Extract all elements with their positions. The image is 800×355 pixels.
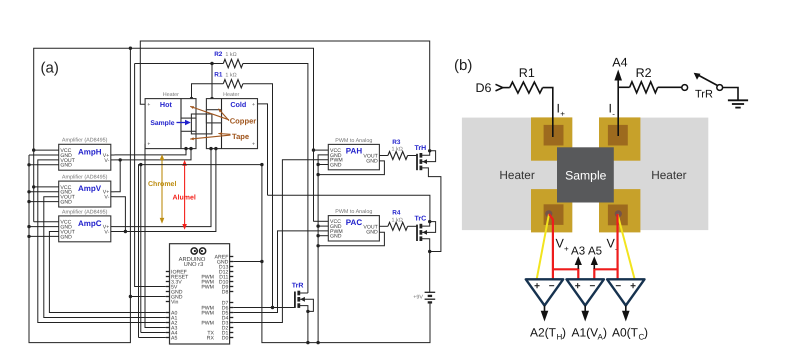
- junction GND bus: [27, 200, 30, 203]
- pin stub V+ AmpC: [111, 226, 115, 228]
- svg-text:−: −: [549, 281, 555, 292]
- pin stub GND: [230, 261, 234, 263]
- resistor R1 (b): [510, 82, 543, 93]
- pin stub D12: [230, 271, 234, 273]
- junction hot heater top pin: [190, 97, 193, 100]
- svg-text:Amplifier (AD8495): Amplifier (AD8495): [62, 209, 108, 215]
- wire cold thermocouple alumel to AmpC V-: [115, 149, 216, 232]
- op-amp U3 (A1): [567, 279, 604, 321]
- heater Hot body: [145, 99, 196, 149]
- wire cold heater right pin down: [258, 104, 268, 195]
- svg-text:Amplifier (AD8495): Amplifier (AD8495): [62, 175, 108, 181]
- node V- contact dot: [615, 210, 622, 217]
- svg-text:A5: A5: [588, 246, 602, 258]
- wire arduino D6 to TrR gate: [233, 307, 295, 309]
- pin stub D5: [230, 312, 234, 314]
- amplifier AmpH (AD8495): [59, 144, 111, 170]
- pin stub V- AmpV: [111, 196, 115, 198]
- pin mark hot heater left bottom: [148, 143, 150, 145]
- junction cold bottom column: [260, 163, 263, 166]
- svg-text:GND: GND: [60, 200, 72, 206]
- svg-text:Heater: Heater: [163, 92, 179, 98]
- arrow A3 sense: [577, 264, 579, 269]
- svg-text:A5: A5: [171, 335, 177, 341]
- pin stub D10: [230, 281, 234, 283]
- svg-text:PWM: PWM: [201, 310, 214, 316]
- junction AmpV V- / AmpC V-: [124, 230, 127, 233]
- wire TrH source: [422, 168, 441, 252]
- pin stub A4: [166, 332, 170, 334]
- wire R2 rail to Arduino 5V pin: [135, 64, 166, 287]
- svg-text:AmpV: AmpV: [78, 184, 102, 193]
- svg-text:Amplifier (AD8495): Amplifier (AD8495): [62, 138, 108, 144]
- svg-text:+: +: [534, 281, 540, 292]
- junction TrC drain node: [428, 220, 431, 223]
- wire to Arduino A5: [139, 337, 166, 339]
- wire to Arduino A4: [141, 332, 166, 334]
- pin stub D9: [230, 286, 234, 288]
- svg-text:Sample: Sample: [150, 120, 174, 127]
- junction cold heater top pin: [210, 97, 213, 100]
- wire to Arduino GND pin: [130, 296, 165, 298]
- wire cold heater strip divider: [221, 99, 223, 149]
- junction cold heater bottom pin 2: [214, 147, 217, 150]
- pad V- bottom-right: [599, 189, 640, 232]
- svg-text:+: +: [575, 281, 581, 292]
- pin stub 3.3V: [166, 281, 170, 283]
- heater Cold body: [206, 99, 257, 149]
- junction PWM GND bus: [316, 244, 319, 247]
- wire hot-heater top rail to TrH drain: [140, 41, 429, 151]
- svg-text:Heater: Heater: [499, 168, 534, 182]
- wire arduino GND to ground spine: [233, 261, 262, 263]
- pin stub GND: [166, 291, 170, 293]
- junction VCC rail / trunk: [129, 47, 132, 50]
- svg-text:Heater: Heater: [223, 92, 239, 98]
- pin stub GND: [166, 296, 170, 298]
- arrow tape to cold strip lower: [218, 133, 230, 136]
- wire AmpV GND2 to GND bus: [29, 201, 59, 203]
- wire PAC VOUT to R4: [379, 225, 388, 227]
- svg-text:UNO r3: UNO r3: [184, 261, 204, 268]
- wire cold thermocouple chromel to AmpC V+: [115, 149, 212, 227]
- wire AmpC GND2 to GND bus: [29, 235, 59, 237]
- wire TrC drain: [422, 222, 430, 227]
- pin stub A5: [166, 337, 170, 339]
- wire PWM GND bus: [318, 155, 328, 343]
- svg-text:1 kΩ: 1 kΩ: [225, 73, 236, 79]
- transistor TrR: [295, 291, 305, 308]
- copper contact bottom-right: [608, 205, 628, 226]
- pin mark cold heater right top: [252, 103, 254, 105]
- pwm-to-analog block PAC: [328, 216, 379, 241]
- wire red V+ bus: [549, 214, 553, 279]
- switch TrR contact 1: [682, 85, 688, 91]
- junction TrH drain node: [428, 149, 431, 152]
- wire AmpH VCC to VCC bus: [34, 149, 59, 151]
- junction PWM GND bus: [316, 163, 319, 166]
- junction AmpV VCC: [32, 185, 35, 188]
- wire VCC rail: [34, 48, 314, 222]
- junction PWM GND bus: [316, 173, 319, 176]
- pin stub D2: [230, 327, 234, 329]
- arrow tape to hot strip lower: [190, 135, 230, 139]
- svg-text:A4: A4: [612, 56, 627, 70]
- wire R1 right to D6 net: [243, 84, 273, 308]
- wire switch to ground: [723, 88, 738, 101]
- wire R2 rail right to TrR drain: [243, 64, 308, 294]
- svg-text:+: +: [560, 110, 565, 119]
- heater band (b) right: [599, 118, 708, 231]
- junction PWM GND bus: [316, 224, 319, 227]
- junction GND bus: [27, 163, 30, 166]
- resistor R4: [388, 222, 408, 230]
- connector chevron D6: [496, 84, 503, 91]
- svg-text:D8: D8: [222, 289, 229, 295]
- wire hot thermocouple alumel to AmpH V-: [115, 149, 192, 160]
- pin mark hot heater left top: [148, 103, 150, 105]
- wire TrC body loop: [422, 222, 436, 233]
- wire R1 left to hot heater pin: [192, 84, 224, 99]
- wire TrC drain rail: [268, 195, 430, 221]
- arrow Chromel double-headed: [161, 158, 163, 220]
- pin stub V- AmpC: [111, 231, 115, 233]
- pin stub D7: [230, 302, 234, 304]
- pin stub A1: [166, 317, 170, 319]
- wire AmpC VCC to VCC bus: [34, 221, 59, 223]
- resistor R2: [223, 59, 243, 67]
- svg-text:GND: GND: [366, 158, 378, 164]
- heater band (b) left: [462, 118, 572, 231]
- pin stub V+ AmpV: [111, 191, 115, 193]
- arrow copper to cold strip upper: [218, 109, 229, 121]
- resistor R2 (b): [630, 82, 658, 93]
- junction A4 column: [139, 163, 142, 166]
- wire yellow V- to opamp A0: [618, 214, 635, 279]
- svg-text:A3: A3: [571, 246, 585, 258]
- wire TrH drain: [422, 151, 430, 156]
- svg-text:Copper: Copper: [230, 116, 257, 125]
- svg-text:): ): [603, 326, 607, 340]
- junction PWM GND bus to bottom bus: [316, 341, 319, 344]
- svg-text:GND: GND: [366, 230, 378, 236]
- wire A4 column: [140, 165, 142, 333]
- wire R2 rail left: [135, 63, 224, 65]
- junction GND bus: [27, 235, 30, 238]
- svg-text:Cold: Cold: [230, 100, 246, 109]
- wire R1 to I+ pad: [543, 88, 553, 137]
- svg-text:V-: V-: [104, 195, 109, 201]
- svg-text:R1: R1: [214, 72, 223, 79]
- junction PWM GND bus: [316, 234, 319, 237]
- svg-text:RX: RX: [207, 335, 215, 341]
- pin stub D8: [230, 291, 234, 293]
- wire ground spine bottom bus to battery: [262, 165, 430, 343]
- pin stub V- AmpH: [111, 159, 115, 161]
- wire AmpH GND2 to GND bus: [29, 164, 59, 166]
- pin stub Vin: [166, 301, 170, 303]
- wire PAH PWM to arduino D3: [233, 160, 328, 323]
- junction Arduino GND tap: [129, 295, 132, 298]
- copper contact top-right: [608, 125, 628, 146]
- svg-text:Chromel: Chromel: [148, 180, 176, 188]
- pin stub A3: [166, 327, 170, 329]
- wire yellow V+ to opamp A2: [537, 214, 549, 279]
- wire TrR body loop: [300, 299, 314, 311]
- svg-text:D0: D0: [222, 335, 229, 341]
- junction hot heater bottom pin 2: [189, 147, 192, 150]
- wire PAC PWM to arduino D5: [233, 231, 328, 313]
- svg-text:Heater: Heater: [651, 168, 686, 182]
- wire PAC GND return loop: [318, 232, 384, 246]
- svg-text:Tape: Tape: [232, 132, 249, 141]
- svg-text:A1(V: A1(V: [572, 326, 599, 340]
- svg-text:PAC: PAC: [346, 218, 363, 227]
- arrow A4 sense: [617, 79, 619, 136]
- pin stub RESET: [166, 276, 170, 278]
- copper tape hot side: [181, 118, 196, 131]
- wire TrR drain: [300, 292, 308, 294]
- svg-text:Vin: Vin: [171, 299, 179, 305]
- switch TrR lever: [698, 75, 718, 86]
- svg-text:Sample: Sample: [565, 168, 607, 182]
- svg-text:Hot: Hot: [160, 100, 173, 109]
- svg-text:1 kΩ: 1 kΩ: [392, 217, 403, 223]
- pin stub AREF: [230, 256, 234, 258]
- wire PAH VOUT to R3: [379, 155, 388, 157]
- svg-text:AmpC: AmpC: [78, 219, 102, 228]
- svg-text:R3: R3: [392, 139, 401, 146]
- switch TrR contact 2: [717, 85, 723, 91]
- wire PAC VCC: [314, 220, 329, 222]
- pin stub D0: [230, 337, 234, 339]
- svg-text:R4: R4: [392, 210, 401, 217]
- pin stub D1: [230, 332, 234, 334]
- svg-text:1 kΩ: 1 kΩ: [392, 147, 403, 153]
- junction AmpH VCC: [32, 148, 35, 151]
- copper contact bottom-left: [544, 204, 564, 225]
- battery +9V: [425, 252, 436, 303]
- svg-text:R2: R2: [636, 66, 652, 80]
- wire TrH body loop: [422, 151, 436, 162]
- wire D6 to R1: [503, 87, 510, 89]
- junction GND bus: [27, 190, 30, 193]
- svg-text:GND: GND: [330, 234, 342, 240]
- arrow sample pointer: [177, 122, 187, 124]
- ground symbol: [728, 100, 748, 107]
- arduino U1 UNO r3: [170, 244, 230, 344]
- pin stub 5V: [166, 286, 170, 288]
- svg-text:V-: V-: [104, 158, 109, 164]
- wire AmpV GND to GND bus: [29, 191, 59, 193]
- svg-text:(b): (b): [454, 57, 472, 74]
- wire tap to AmpV V+: [115, 160, 121, 192]
- pin stub IOREF: [166, 271, 170, 273]
- wire AmpV V- to cold alumel net: [115, 197, 126, 232]
- svg-text:D6: D6: [476, 81, 492, 95]
- svg-text:): ): [562, 326, 566, 340]
- wire TrR source: [300, 306, 308, 343]
- pin stub A0: [166, 312, 170, 314]
- pin stub D13: [230, 266, 234, 268]
- svg-text:+: +: [630, 281, 636, 292]
- svg-text:AmpH: AmpH: [78, 147, 102, 156]
- wire long net A5/cold return: [139, 165, 262, 338]
- svg-text:−: −: [589, 281, 595, 292]
- svg-text:R2: R2: [214, 51, 223, 58]
- junction R2 rail / cold heater feed: [210, 62, 213, 65]
- wire A4 node to R2: [618, 86, 629, 88]
- svg-text:1 kΩ: 1 kΩ: [225, 52, 236, 58]
- wire PAC GND: [318, 225, 328, 227]
- amplifier AmpV (AD8495): [59, 181, 111, 207]
- junction PAH VCC tap: [312, 148, 315, 151]
- sample block (b): [557, 147, 614, 202]
- arrow copper to hot strip upper: [190, 106, 229, 119]
- wire R4 to TrC gate: [408, 225, 417, 227]
- svg-text:TrC: TrC: [415, 216, 427, 223]
- pad I+ top-left: [531, 117, 572, 160]
- pin stub D11: [230, 276, 234, 278]
- svg-text:R1: R1: [519, 66, 535, 80]
- svg-text:−: −: [615, 281, 621, 292]
- junction hot heater bottom pin 1: [184, 147, 187, 150]
- wire trunk GND column and bottom-left return: [29, 48, 130, 342]
- junction TrR body-source: [306, 310, 309, 313]
- svg-text:V-: V-: [104, 229, 109, 235]
- svg-text:(a): (a): [41, 60, 59, 77]
- wire hot thermocouple chromel to AmpH V+: [115, 149, 187, 155]
- transistor TrH: [417, 153, 427, 170]
- wire AmpH VOUT to Arduino A2: [38, 160, 166, 323]
- junction AmpV V+ tap: [119, 158, 122, 161]
- wire hot heater strip divider: [180, 99, 182, 149]
- junction TrR source to bottom bus: [306, 341, 309, 344]
- wire AmpC VOUT to Arduino A0: [49, 232, 165, 313]
- pad V+ bottom-left: [531, 189, 572, 232]
- wire PAC GND2: [318, 235, 328, 237]
- svg-text:GND: GND: [60, 163, 72, 169]
- wire PAH VCC: [314, 149, 329, 151]
- wire AmpC GND to GND bus: [29, 226, 59, 228]
- node V+ contact dot: [545, 210, 552, 217]
- arrow A5 sense: [593, 264, 595, 269]
- svg-text:PAH: PAH: [346, 147, 363, 156]
- wire red V- bus: [616, 214, 618, 279]
- svg-text:Alumel: Alumel: [173, 193, 196, 201]
- junction GND bus: [27, 225, 30, 228]
- transistor TrC: [417, 224, 427, 241]
- arrow Alumel double-headed: [184, 164, 186, 226]
- svg-text:GND: GND: [330, 162, 342, 168]
- svg-text:A0(T: A0(T: [612, 326, 639, 340]
- amplifier AmpC (AD8495): [59, 216, 111, 242]
- pin stub A2: [166, 322, 170, 324]
- op-amp U4 (A0): [607, 279, 644, 321]
- svg-text:PWM: PWM: [201, 284, 214, 290]
- sample box: [191, 114, 212, 134]
- svg-text:-: -: [612, 110, 615, 119]
- wire cold heater top feed: [211, 64, 213, 99]
- pin stub D6: [230, 307, 234, 309]
- svg-text:A2(T: A2(T: [530, 326, 557, 340]
- copper tape cold side: [206, 110, 221, 123]
- svg-text:PWM: PWM: [201, 320, 214, 326]
- wire AmpH GND to GND bus: [29, 154, 59, 156]
- junction ground spine: [260, 260, 263, 263]
- svg-text:+9V: +9V: [413, 294, 423, 300]
- pin stub D3: [230, 322, 234, 324]
- svg-text:PWM to Analog: PWM to Analog: [335, 138, 372, 144]
- wire PAH GND return loop: [318, 161, 384, 175]
- wire R3 to TrH gate: [408, 155, 417, 157]
- svg-text:TrR: TrR: [695, 89, 713, 101]
- svg-text:TrH: TrH: [415, 145, 427, 152]
- junction cold heater bottom pin 1: [209, 147, 212, 150]
- pin mark cold heater right bottom: [252, 143, 254, 145]
- op-amp U2 (A2): [526, 279, 563, 321]
- resistor R3: [388, 152, 408, 160]
- svg-text:): ): [644, 326, 648, 340]
- wire AmpV VOUT to Arduino A1: [44, 197, 166, 318]
- wire AmpV VCC to VCC bus: [34, 186, 59, 188]
- wire R2 to switch: [658, 86, 682, 88]
- junction source node to battery: [428, 250, 431, 253]
- svg-text:PWM to Analog: PWM to Analog: [335, 209, 372, 215]
- resistor R1: [223, 80, 243, 88]
- copper contact top-left: [544, 125, 564, 146]
- svg-text:+: +: [564, 245, 569, 254]
- pwm-to-analog block PAH: [328, 144, 379, 169]
- svg-text:GND: GND: [60, 234, 72, 240]
- wire hot heater pin to Arduino A3: [145, 144, 166, 328]
- junction R1 net / D6 gate line: [271, 306, 274, 309]
- pad I- top-right: [599, 117, 640, 160]
- pin stub D4: [230, 317, 234, 319]
- svg-text:TrR: TrR: [292, 283, 304, 290]
- pin stub V+ AmpH: [111, 154, 115, 156]
- wire TrC source: [422, 239, 430, 252]
- wire PAH GND2: [318, 164, 328, 166]
